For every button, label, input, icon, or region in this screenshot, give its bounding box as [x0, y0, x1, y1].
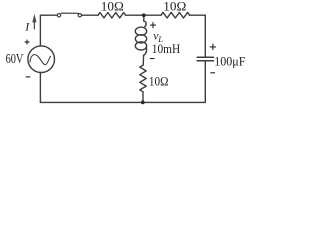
svg-text:L: L	[157, 34, 163, 44]
svg-text:10mH: 10mH	[152, 41, 180, 56]
svg-text:10Ω: 10Ω	[149, 74, 169, 89]
svg-text:100μF: 100μF	[214, 54, 245, 69]
svg-text:I: I	[24, 19, 30, 33]
svg-text:10Ω: 10Ω	[101, 0, 124, 13]
svg-text:60V: 60V	[6, 52, 24, 67]
svg-text:10Ω: 10Ω	[163, 0, 186, 13]
